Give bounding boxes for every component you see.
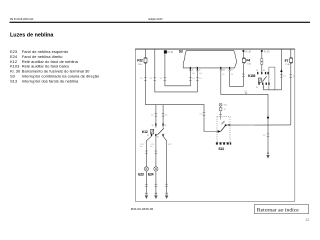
header rule bbox=[10, 22, 311, 23]
svg-text:1,5: 1,5 bbox=[231, 74, 233, 76]
pin number labels S3 bbox=[192, 69, 234, 76]
connector ticks on F7 wire bbox=[290, 75, 293, 78]
svg-text:1,5: 1,5 bbox=[293, 76, 295, 78]
connector ticks on stub bbox=[280, 75, 283, 78]
ground (K103 output) bbox=[266, 152, 269, 159]
svg-text:1,5: 1,5 bbox=[151, 115, 153, 117]
svg-text:F7: F7 bbox=[285, 59, 289, 63]
svg-text:PE 34.00-B-0030-01A: PE 34.00-B-0030-01A bbox=[10, 18, 34, 21]
NC contact stub bbox=[221, 121, 224, 124]
coil bbox=[151, 129, 154, 134]
wires lamps to ground bbox=[145, 171, 147, 192]
dashed housing bbox=[217, 116, 230, 142]
wire F32 vertical from bus bbox=[144, 49, 146, 104]
svg-text:1,5: 1,5 bbox=[222, 74, 224, 76]
switch S13 fog lamp switch bbox=[216, 103, 231, 151]
svg-text:30: 30 bbox=[152, 125, 154, 127]
splice mark bbox=[245, 92, 247, 94]
svg-text:E23: E23 bbox=[138, 172, 144, 176]
relay bottom pins bbox=[258, 83, 259, 85]
svg-text:Luzes de neblina: Luzes de neblina bbox=[10, 33, 54, 39]
svg-text:F4: F4 bbox=[246, 59, 250, 63]
svg-text:15: 15 bbox=[199, 69, 201, 71]
svg-text:7,5A: 7,5A bbox=[247, 63, 252, 66]
lamp E24 bbox=[148, 167, 158, 177]
svg-text:7,5A: 7,5A bbox=[285, 63, 290, 66]
connector ticks above grounds bbox=[145, 184, 168, 187]
top pins bbox=[155, 123, 156, 125]
svg-text:Kl. 30: Kl. 30 bbox=[264, 50, 270, 53]
connector ticks under S3 pins bbox=[189, 70, 231, 72]
bottom pins bbox=[151, 134, 152, 136]
wire S3 pin 58d down to splice run bbox=[221, 71, 268, 152]
terminal marker Kl.30 square bbox=[164, 50, 174, 54]
illumination lamp bbox=[219, 103, 222, 106]
fuse F32 bbox=[137, 57, 147, 66]
bus Kl.30 terminal 30 bar bbox=[135, 48, 294, 50]
svg-text:1,5: 1,5 bbox=[263, 135, 265, 137]
svg-text:30: 30 bbox=[256, 70, 258, 72]
node junction dot on K103 output bbox=[267, 117, 269, 119]
svg-text:0,5: 0,5 bbox=[192, 73, 194, 75]
bottom pin band bbox=[216, 142, 218, 144]
connector arrow on stub bbox=[280, 69, 282, 72]
svg-text:16: 16 bbox=[192, 69, 194, 71]
svg-text:Kl. 30: Kl. 30 bbox=[245, 50, 251, 53]
svg-text:86: 86 bbox=[164, 125, 166, 127]
connector ticks row (pins 77-81) bbox=[144, 78, 199, 81]
ground E24 bbox=[154, 192, 157, 199]
svg-text:1,5: 1,5 bbox=[200, 114, 202, 116]
svg-text:B34.00-0336-06: B34.00-0336-06 bbox=[131, 207, 153, 211]
wire K12 to E23 (diagonal) bbox=[146, 136, 151, 167]
ground E23 bbox=[145, 192, 148, 199]
connector ticks on ground wire bbox=[267, 134, 270, 136]
svg-text:1,5: 1,5 bbox=[165, 115, 167, 117]
svg-text:1,5: 1,5 bbox=[283, 76, 285, 78]
svg-text:2,5: 2,5 bbox=[160, 78, 162, 80]
legend bbox=[10, 49, 100, 83]
wire gauge microlabels bbox=[140, 78, 201, 80]
wire K12 87 output diagonal right bbox=[163, 136, 167, 192]
svg-text:K103: K103 bbox=[248, 74, 255, 78]
svg-text:31: 31 bbox=[224, 109, 226, 111]
return button bbox=[254, 205, 308, 214]
relay K103 bbox=[248, 51, 275, 90]
svg-text:58d: 58d bbox=[224, 104, 227, 106]
contact bbox=[158, 128, 164, 134]
svg-text:86: 86 bbox=[263, 70, 265, 72]
svg-text:E24: E24 bbox=[148, 172, 154, 176]
svg-text:87: 87 bbox=[157, 137, 159, 139]
svg-text:58d: 58d bbox=[222, 69, 225, 71]
svg-text:K12: K12 bbox=[142, 130, 148, 134]
relay K12 bbox=[142, 105, 168, 139]
schematic frame bbox=[135, 49, 294, 201]
svg-text:Interruptor dos faróis de nebl: Interruptor dos faróis de neblina bbox=[22, 78, 79, 83]
svg-text:0,5: 0,5 bbox=[199, 73, 201, 75]
svg-text:S13: S13 bbox=[10, 78, 18, 83]
svg-text:58: 58 bbox=[231, 69, 233, 71]
wire S3 pin 58 to fuse F4 (U link) bbox=[230, 64, 244, 86]
lamp E23 bbox=[138, 167, 148, 177]
svg-text:15A: 15A bbox=[138, 63, 142, 66]
node contact dot bbox=[225, 124, 227, 126]
node Kl.30 junction dot (F4 branch) bbox=[242, 50, 251, 53]
fuse F7 bbox=[285, 49, 293, 125]
relay contact bbox=[262, 76, 266, 81]
svg-text:2,5: 2,5 bbox=[150, 78, 152, 80]
pin marks under S3 bbox=[190, 67, 230, 70]
relay top pins bbox=[257, 72, 258, 74]
relay coil bbox=[258, 78, 261, 82]
wire bus drop 2 bbox=[155, 49, 198, 92]
fuse F4 bbox=[242, 51, 251, 66]
connector ticks above lamps bbox=[145, 151, 157, 154]
feed wires bbox=[155, 105, 157, 128]
svg-text:22: 22 bbox=[306, 218, 310, 222]
wire from Kl.30 square bbox=[165, 53, 191, 86]
connector ticks on F4 wire bbox=[242, 74, 245, 77]
svg-text:Edição 01/03: Edição 01/03 bbox=[149, 18, 164, 21]
svg-text:1,5: 1,5 bbox=[244, 91, 246, 93]
wire from Kl.30 dot to relay bbox=[261, 51, 263, 72]
input arrowhead bbox=[218, 130, 221, 133]
svg-text:F32: F32 bbox=[137, 59, 143, 63]
connector ticks bbox=[155, 114, 165, 117]
op switch S3 combination switch box bbox=[179, 50, 237, 68]
svg-text:Kl. 30: Kl. 30 bbox=[167, 51, 173, 54]
svg-text:1,5: 1,5 bbox=[192, 78, 194, 80]
svg-text:S3: S3 bbox=[179, 50, 183, 54]
resistor bbox=[219, 108, 222, 111]
svg-text:1,5: 1,5 bbox=[199, 78, 201, 80]
wire feed run to K12 and S13 bbox=[145, 105, 220, 132]
svg-text:85: 85 bbox=[147, 135, 149, 137]
gauge labels under K12 bbox=[140, 144, 171, 148]
inline connector on wire bbox=[261, 59, 263, 62]
wire S13 output to F7 drop bbox=[226, 124, 291, 126]
svg-text:0,75: 0,75 bbox=[168, 144, 171, 146]
connector ticks on S13 feed bbox=[203, 113, 206, 116]
svg-text:2,5: 2,5 bbox=[140, 78, 142, 80]
svg-text:85: 85 bbox=[256, 87, 258, 89]
svg-text:S13: S13 bbox=[218, 147, 224, 151]
wire relay 85 U-link to bus stub bbox=[264, 49, 282, 90]
blade bbox=[221, 125, 226, 131]
ground K12 87 bbox=[165, 192, 168, 199]
relay outline loop bbox=[269, 67, 275, 90]
wire K12 to E24 bbox=[155, 136, 157, 167]
svg-text:Retornar ao índice: Retornar ao índice bbox=[257, 208, 299, 214]
node Kl.30 junction dot (K103 branch) bbox=[261, 50, 270, 53]
